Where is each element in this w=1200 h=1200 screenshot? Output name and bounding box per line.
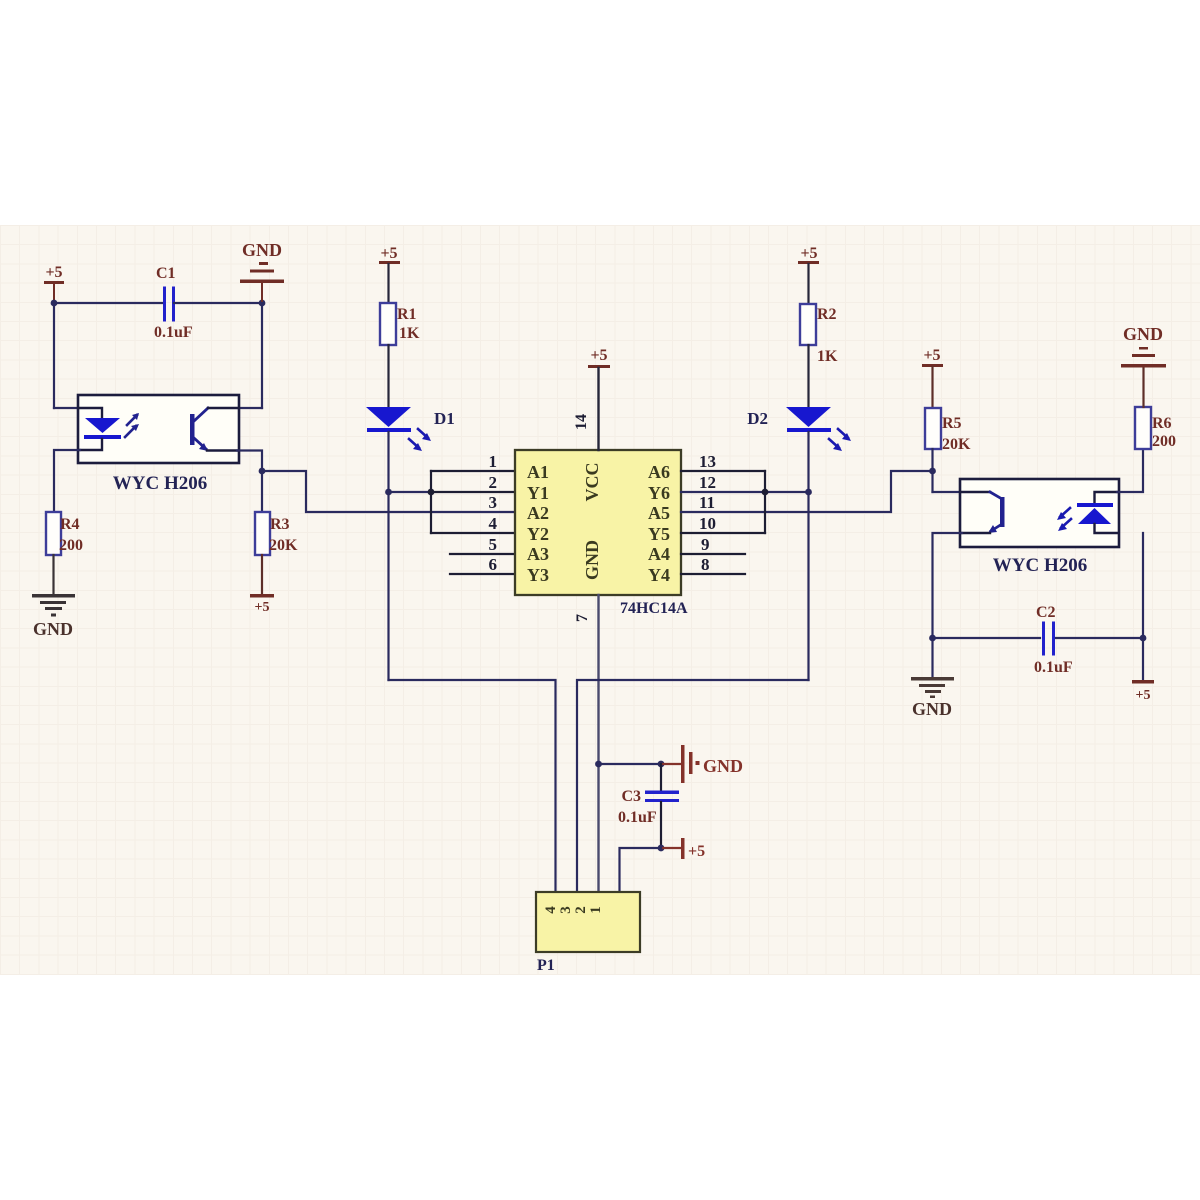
wire	[54, 450, 80, 512]
wire	[52, 555, 54, 594]
svg-text:9: 9	[701, 535, 710, 554]
power +5 flag	[681, 838, 705, 860]
power +5 above R2	[798, 245, 819, 264]
svg-text:R1: R1	[397, 306, 417, 323]
junction node	[658, 845, 665, 852]
svg-text:P1: P1	[537, 957, 555, 974]
capacitor C2	[933, 604, 1144, 676]
svg-text:0.1uF: 0.1uF	[618, 809, 657, 826]
svg-text:1K: 1K	[817, 348, 838, 365]
svg-text:WYC H206: WYC H206	[993, 555, 1087, 576]
svg-text:C1: C1	[156, 265, 176, 282]
LED D1	[366, 407, 455, 451]
svg-text:GND: GND	[912, 699, 952, 719]
wire	[1142, 533, 1144, 680]
wire	[387, 432, 389, 680]
pin 1 wire	[431, 470, 515, 472]
pin 4 wire	[431, 532, 515, 534]
resistor R4	[46, 512, 83, 555]
wire	[387, 345, 389, 407]
pin 6 wire	[450, 573, 515, 575]
wire	[261, 303, 263, 408]
svg-text:Y4: Y4	[648, 565, 670, 585]
wire	[807, 432, 809, 680]
svg-text:GND: GND	[242, 240, 282, 260]
ground GND flag right of C3	[681, 745, 743, 783]
wire	[807, 345, 809, 407]
resistor R1	[380, 303, 420, 345]
pin 13 wire	[681, 470, 765, 472]
junction node	[762, 489, 769, 496]
junction node	[1140, 635, 1147, 642]
svg-text:R4: R4	[60, 516, 80, 533]
svg-text:0.1uF: 0.1uF	[1034, 659, 1073, 676]
junction node	[428, 489, 435, 496]
pin numbers 13-8	[699, 452, 716, 574]
svg-text:+5: +5	[800, 245, 817, 262]
svg-text:0.1uF: 0.1uF	[154, 324, 193, 341]
svg-text:12: 12	[699, 473, 716, 492]
pin 2 wire	[431, 491, 515, 493]
power +5 left	[44, 264, 64, 303]
junction node	[51, 300, 58, 307]
wire D1 to P1 pin4	[389, 680, 556, 891]
svg-text:A4: A4	[648, 544, 670, 564]
wire	[53, 303, 55, 408]
power +5 under R3	[250, 594, 274, 615]
power +5 above R1	[379, 245, 400, 264]
svg-text:6: 6	[489, 555, 498, 574]
resistor R2	[800, 304, 838, 365]
svg-text:74HC14A: 74HC14A	[620, 600, 688, 617]
svg-text:Y3: Y3	[527, 565, 549, 585]
ground GND top	[240, 240, 284, 303]
svg-text:+5: +5	[688, 843, 705, 860]
svg-text:7: 7	[574, 614, 591, 622]
IC U1 74HC14A body	[515, 450, 688, 617]
svg-text:1: 1	[588, 906, 604, 914]
junction node	[259, 468, 266, 475]
wire	[237, 451, 262, 472]
wire	[931, 449, 933, 492]
svg-text:3: 3	[489, 493, 498, 512]
svg-text:R5: R5	[942, 415, 962, 432]
svg-text:C3: C3	[621, 788, 641, 805]
svg-text:2: 2	[573, 906, 589, 914]
wire	[599, 763, 662, 765]
svg-text:200: 200	[59, 537, 83, 554]
power +5 under C2	[1132, 680, 1154, 703]
svg-text:+5: +5	[45, 264, 62, 281]
svg-text:10: 10	[699, 514, 716, 533]
svg-text:8: 8	[701, 555, 710, 574]
resistor R6	[1135, 407, 1176, 450]
svg-text:C2: C2	[1036, 604, 1056, 621]
svg-text:Y5: Y5	[648, 524, 670, 544]
svg-text:GND: GND	[703, 756, 743, 776]
svg-text:VCC: VCC	[582, 463, 602, 502]
pin 11 wire	[681, 471, 933, 512]
junction node	[385, 489, 392, 496]
ground GND above R6	[1121, 324, 1166, 407]
pin 14 wire	[597, 368, 599, 450]
junction node	[595, 761, 602, 768]
wire	[261, 555, 263, 594]
wire	[933, 491, 963, 493]
pin 5 wire	[450, 553, 515, 555]
svg-text:GND: GND	[1123, 324, 1163, 344]
power +5 above IC	[588, 347, 610, 368]
svg-text:D1: D1	[434, 409, 455, 428]
wire	[807, 264, 809, 304]
svg-text:4: 4	[543, 906, 559, 914]
svg-text:20K: 20K	[942, 436, 971, 453]
svg-text:200: 200	[1152, 433, 1176, 450]
svg-text:R2: R2	[817, 306, 837, 323]
wire	[1117, 449, 1143, 492]
wire	[661, 847, 681, 849]
svg-text:D2: D2	[747, 409, 768, 428]
svg-text:13: 13	[699, 452, 716, 471]
svg-text:+5: +5	[255, 600, 270, 615]
svg-text:+5: +5	[1136, 688, 1151, 703]
wire	[262, 471, 515, 512]
wire bus right	[764, 471, 766, 533]
svg-text:+5: +5	[590, 347, 607, 364]
svg-text:GND: GND	[33, 619, 73, 639]
pin 9 wire	[681, 553, 745, 555]
svg-text:Y2: Y2	[527, 524, 549, 544]
capacitor C3	[618, 764, 679, 848]
pin 10 wire	[681, 532, 765, 534]
svg-text:4: 4	[489, 514, 498, 533]
svg-text:20K: 20K	[269, 537, 298, 554]
wire	[389, 491, 432, 493]
wire	[237, 407, 262, 409]
svg-text:A2: A2	[527, 503, 549, 523]
junction node	[259, 300, 266, 307]
junction node	[929, 635, 936, 642]
junction node	[805, 489, 812, 496]
svg-text:A1: A1	[527, 462, 549, 482]
resistor R5	[925, 408, 971, 453]
wire	[387, 264, 389, 303]
svg-text:14: 14	[573, 414, 590, 430]
junction node	[658, 761, 665, 768]
svg-text:5: 5	[489, 535, 498, 554]
svg-text:A5: A5	[648, 503, 670, 523]
svg-text:Y6: Y6	[648, 483, 670, 503]
wire	[661, 763, 681, 765]
ground GND under opto right	[911, 677, 954, 719]
junction node	[929, 468, 936, 475]
optocoupler U2 WYC H206 left	[78, 395, 239, 494]
pin 12 wire	[681, 491, 808, 493]
optocoupler U3 WYC H206 right	[960, 479, 1119, 576]
svg-text:R6: R6	[1152, 415, 1172, 432]
svg-text:Y1: Y1	[527, 483, 549, 503]
power +5 above R5	[922, 347, 943, 408]
svg-text:R3: R3	[270, 516, 290, 533]
pin 8 wire	[681, 573, 745, 575]
svg-text:3: 3	[558, 906, 574, 914]
svg-text:GND: GND	[582, 540, 602, 580]
svg-text:1K: 1K	[399, 325, 420, 342]
ground GND under R4	[32, 594, 75, 639]
svg-text:+5: +5	[380, 245, 397, 262]
svg-text:11: 11	[699, 493, 715, 512]
wire	[620, 848, 662, 891]
wire bus left	[430, 471, 432, 533]
connector P1	[536, 892, 640, 974]
wire	[54, 407, 80, 409]
wire	[261, 471, 263, 512]
svg-text:1: 1	[489, 452, 498, 471]
svg-text:WYC H206: WYC H206	[113, 473, 207, 494]
resistor R3	[255, 512, 298, 555]
svg-text:+5: +5	[923, 347, 940, 364]
svg-text:2: 2	[489, 473, 498, 492]
pin 7 wire GND net	[597, 595, 599, 891]
svg-text:A6: A6	[648, 462, 670, 482]
wire	[54, 302, 164, 304]
pin numbers 1-6	[489, 452, 498, 574]
wire D2 to P1 pin3	[577, 680, 809, 891]
wire	[933, 533, 963, 677]
wire	[174, 302, 262, 304]
LED D2	[747, 407, 851, 451]
capacitor C1	[154, 265, 193, 341]
svg-text:A3: A3	[527, 544, 549, 564]
